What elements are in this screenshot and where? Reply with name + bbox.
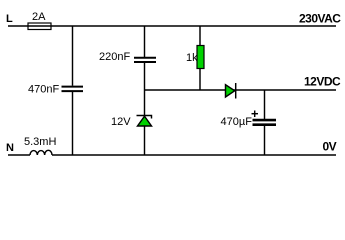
wire bottom rail N to inductor bbox=[8, 154, 30, 156]
svg-text:0V: 0V bbox=[323, 140, 337, 154]
svg-text:5.3mH: 5.3mH bbox=[24, 136, 56, 148]
wire zener to 0V rail bbox=[144, 126, 146, 155]
svg-text:470nF: 470nF bbox=[28, 84, 59, 96]
svg-text:L: L bbox=[6, 13, 13, 25]
svg-text:N: N bbox=[6, 142, 14, 154]
wire 1k top lead bbox=[199, 26, 201, 46]
svg-text:12V: 12V bbox=[111, 116, 131, 128]
fuse F1 bbox=[28, 23, 51, 30]
wire middle rail to 12VDC bbox=[145, 89, 337, 91]
svg-text:220nF: 220nF bbox=[99, 51, 130, 63]
capacitor C3 470uF polarity plus bbox=[252, 111, 259, 118]
svg-text:12VDC: 12VDC bbox=[304, 75, 341, 89]
capacitor C2 220nF bbox=[134, 58, 156, 62]
wire 470nF top lead bbox=[72, 26, 74, 86]
svg-text:470µF: 470µF bbox=[221, 116, 253, 128]
inductor L1 5.3mH bbox=[30, 150, 52, 155]
capacitor C1 470nF bbox=[62, 87, 84, 92]
zener diode D1 12V bbox=[137, 116, 152, 127]
resistor R1 1k bbox=[197, 46, 204, 69]
svg-text:230VAC: 230VAC bbox=[299, 12, 341, 26]
wire bottom rail to 0V bbox=[52, 154, 336, 156]
wire 470uF top lead bbox=[264, 90, 266, 120]
wire 470nF bottom lead bbox=[72, 92, 74, 155]
wire top rail L to 230VAC bbox=[8, 25, 336, 27]
wire 220nF top lead bbox=[144, 26, 146, 58]
svg-text:1k: 1k bbox=[186, 52, 198, 64]
wire 220nF bottom lead to zener bbox=[144, 63, 146, 117]
capacitor C3 470uF bbox=[253, 120, 277, 125]
svg-text:2A: 2A bbox=[32, 11, 46, 23]
wire 470uF bottom lead bbox=[264, 126, 266, 155]
diode D2 bbox=[226, 83, 236, 99]
wire 1k bottom lead bbox=[199, 69, 201, 91]
